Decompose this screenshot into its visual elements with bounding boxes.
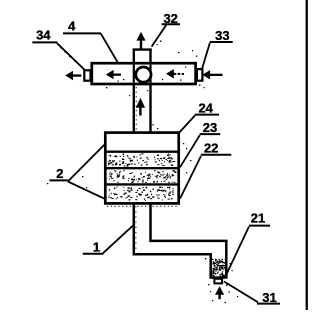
svg-text:1: 1 bbox=[93, 240, 100, 255]
svg-text:21: 21 bbox=[251, 211, 265, 226]
layer divider above bottom layer 22 bbox=[107, 183, 178, 185]
right page border line bbox=[306, 0, 308, 310]
filter housing box (outer) bbox=[105, 133, 178, 204]
leader 4 bbox=[101, 34, 118, 63]
leader 31 bbox=[224, 282, 258, 303]
underline 32 bbox=[162, 23, 180, 25]
left outflow arrow (outside header, pointing left) bbox=[65, 71, 81, 80]
svg-text:23: 23 bbox=[203, 120, 217, 135]
drain pipe 1: outer wall (left/bottom) bbox=[134, 204, 211, 278]
leader 2 lower bbox=[68, 182, 106, 200]
leader 32 bbox=[152, 25, 167, 47]
layer divider between 23 and middle layer bbox=[107, 167, 178, 169]
right inflow arrow (outside header, pointing left into fitting) bbox=[202, 70, 222, 79]
leader 1 bbox=[103, 225, 134, 253]
collector media stipple bbox=[212, 260, 226, 277]
left outlet fitting bbox=[84, 70, 90, 80]
layer divider under empty chamber 24 bbox=[107, 150, 178, 152]
pump/valve circle 4 in header bbox=[136, 67, 151, 82]
underline 24 bbox=[195, 114, 219, 116]
horizontal header pipe 3 bbox=[92, 63, 196, 84]
leader 21 bbox=[227, 227, 249, 275]
filter media stipple: middle layer bbox=[109, 170, 177, 183]
svg-text:24: 24 bbox=[198, 100, 213, 115]
dotted scan line under filter box bottom bbox=[107, 205, 178, 207]
collector box dotted top boundary bbox=[212, 258, 225, 260]
underline 1 bbox=[83, 253, 104, 255]
svg-text:32: 32 bbox=[163, 11, 177, 26]
collector box 21 bottom edge bbox=[210, 276, 228, 278]
vertical pipe upper section (stub above header, through header, down to filter box) bbox=[133, 50, 152, 132]
filter media stipple: layer 23 bbox=[108, 153, 175, 166]
underline 33 bbox=[210, 41, 233, 43]
leader 2 upper bbox=[68, 144, 106, 182]
underline 21 bbox=[249, 225, 270, 227]
leader 34 bbox=[57, 43, 85, 70]
svg-text:33: 33 bbox=[215, 28, 229, 43]
vertical pipe lines crossing header interior bbox=[134, 65, 151, 83]
drain pipe 1: inner wall (right/top) bbox=[151, 204, 227, 278]
filter media stipple: bottom layer 22 bbox=[108, 187, 173, 201]
arrow inside header right side (pointing left, dotted tail) bbox=[166, 69, 184, 78]
label underlines bbox=[32, 24, 280, 303]
svg-text:31: 31 bbox=[262, 290, 276, 305]
svg-text:4: 4 bbox=[68, 19, 76, 34]
underline 34 bbox=[32, 41, 57, 43]
svg-text:22: 22 bbox=[204, 141, 218, 156]
drain outlet notch 31 below collector bbox=[214, 279, 222, 284]
underline 23 bbox=[200, 133, 221, 135]
svg-text:2: 2 bbox=[56, 166, 63, 181]
scan noise: dotted vertical trail below filter box bbox=[135, 206, 137, 251]
underline 31 bbox=[257, 303, 280, 305]
leader 24 bbox=[179, 116, 195, 134]
svg-text:34: 34 bbox=[36, 27, 51, 42]
underline 4 bbox=[63, 32, 101, 34]
leader 33 bbox=[202, 43, 210, 68]
scan noise: dotted vertical trail inside pipe below header bbox=[135, 87, 137, 130]
scan noise speckles bbox=[47, 41, 238, 304]
up arrow inside vertical pipe below header bbox=[136, 98, 145, 116]
up arrow at drain outlet bbox=[215, 286, 224, 299]
arrow inside header left side (pointing left) bbox=[106, 70, 121, 79]
up arrow 32 (exhaust at top of stub) bbox=[136, 32, 145, 49]
leader 23 bbox=[180, 135, 200, 167]
leader 22 bbox=[180, 156, 201, 199]
underline 22 bbox=[201, 154, 232, 156]
leader lines bbox=[57, 25, 258, 302]
underline 2 bbox=[50, 179, 68, 181]
right inlet fitting bbox=[197, 69, 203, 81]
